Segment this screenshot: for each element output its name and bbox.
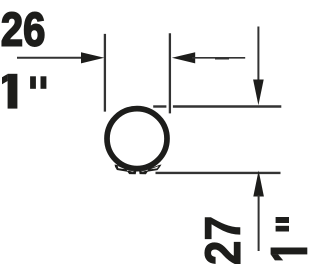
clamp foot left inner shading: [130, 171, 135, 172]
extension line top (H1) left segment: [153, 105, 166, 107]
svg-text:27: 27: [196, 216, 252, 264]
svg-text:26: 26: [1, 3, 45, 56]
dimension text 1 (rotated): [271, 248, 308, 261]
clamp hook right: [147, 165, 162, 172]
extension line left (V1): [104, 34, 106, 112]
inch quote marks (top): [30, 76, 46, 89]
dimension text 1 inch (top): [2, 74, 17, 109]
extension line right (V2): [169, 33, 171, 113]
clamp foot left: [127, 171, 137, 174]
clamp foot right: [139, 171, 148, 174]
dimension line with right arrow (26): [17, 52, 104, 63]
dimension line with down arrow (27): [253, 27, 264, 106]
clamp foot right inner shading: [141, 171, 146, 172]
pipe clamp ring: [107, 109, 167, 169]
inch quote marks (rotated): [276, 217, 289, 232]
white notch left: [118, 166, 125, 169]
extension line bottom (H2): [156, 172, 281, 174]
clamp hook left: [115, 165, 128, 172]
extension line top (H1) right segment: [173, 105, 281, 107]
dimension line with left arrow (26): [172, 52, 245, 63]
dimension line with up arrow (27): [253, 171, 264, 252]
white notch right: [151, 166, 159, 169]
